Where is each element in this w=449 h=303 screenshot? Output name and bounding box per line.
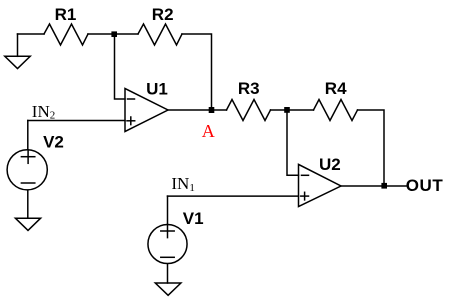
source V1: [148, 196, 187, 283]
wire R4 to corner and down to output node: [358, 110, 385, 186]
svg-text:R2: R2: [152, 5, 174, 24]
node A junction: [209, 107, 215, 113]
svg-text:OUT: OUT: [406, 176, 444, 195]
wire R3 to node2: [271, 109, 288, 111]
resistor R2: [138, 24, 182, 45]
ground G3 below V1: [155, 283, 181, 295]
wire U1 output to node A: [168, 109, 212, 111]
node junction at R1/R2/U1-: [111, 31, 117, 37]
svg-text:V1: V1: [183, 209, 204, 228]
op-amp U2: [299, 164, 342, 206]
op-amp U1: [125, 89, 168, 132]
svg-text:R4: R4: [325, 79, 347, 98]
wire node2 to R4: [288, 109, 314, 111]
resistor R4: [314, 100, 358, 121]
resistor R1: [44, 24, 88, 45]
svg-text:A: A: [202, 121, 215, 141]
svg-text:U1: U1: [146, 79, 168, 98]
wire node A to R3: [212, 109, 227, 111]
resistor R3: [227, 100, 271, 121]
wire U2 output to OUT: [341, 185, 406, 187]
svg-text:V2: V2: [43, 132, 64, 151]
wire node2 down to U2 inverting input: [287, 110, 299, 175]
wire R1 to node1: [88, 33, 115, 35]
svg-text:R3: R3: [238, 79, 260, 98]
svg-text:R1: R1: [55, 5, 77, 24]
source V2: [7, 121, 47, 219]
svg-text:U2: U2: [319, 155, 341, 174]
wire V1 to U2 non-inverting input: [168, 195, 299, 197]
wire node1 down to U1 inverting input: [115, 34, 126, 99]
ground G2 below V2: [15, 218, 40, 230]
ground G1 top-left: [5, 34, 30, 69]
wire R2 to corner and down to node A: [182, 34, 212, 110]
wire V2 to U1 non-inverting input: [28, 120, 125, 122]
node junction R3/R4/U2-: [284, 107, 290, 113]
output node junction: [381, 183, 387, 189]
wire ground to R1: [18, 33, 45, 35]
wire node1 to R2: [115, 33, 139, 35]
